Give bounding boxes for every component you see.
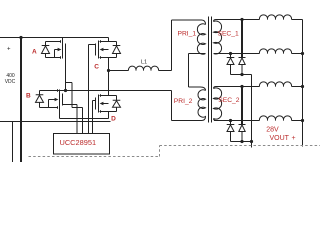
wire switch node A-B to PRI_2 bottom xyxy=(40,91,202,121)
svg-text:B: B xyxy=(26,93,31,100)
node C top line xyxy=(100,40,117,43)
wire dashed boundary xyxy=(29,146,320,157)
inductor LOUT1 xyxy=(259,15,302,20)
wire D gate lead to controller xyxy=(93,101,96,134)
node switch node C-D with L1 xyxy=(107,69,110,72)
node SEC_1 bottom junction xyxy=(229,52,232,55)
wire PRI_1 bottom to PRI_2 top xyxy=(189,54,206,91)
node SEC_2 bottom junction xyxy=(229,119,232,122)
node LOUT4 junction xyxy=(301,119,304,122)
mosfet A symbol xyxy=(46,50,61,59)
wire B-D common source line xyxy=(60,118,109,120)
wire A source / B drain trunk xyxy=(65,56,67,91)
transformer T1 primary winding PRI_2 xyxy=(198,90,206,121)
svg-text:PRI_1: PRI_1 xyxy=(178,30,197,37)
wire DR1-DR2 anode join xyxy=(231,74,243,76)
diode DC body diode xyxy=(113,42,121,58)
node anode junction SEC_2 xyxy=(240,140,243,143)
wire DR3-DR4 anode join to VOUT- xyxy=(231,142,252,148)
svg-text:L1: L1 xyxy=(141,60,147,66)
svg-text:UCC28951: UCC28951 xyxy=(60,138,97,147)
transistor Q C (upper-right) xyxy=(94,38,120,71)
svg-text:VOUT: VOUT xyxy=(270,135,290,142)
wire SEC_1 return to output ground xyxy=(242,75,252,142)
wire B gate lead to controller xyxy=(63,105,78,134)
svg-text:VDC: VDC xyxy=(5,79,16,85)
transformer T1 secondary winding SEC_2 xyxy=(214,87,217,89)
wire C gate lead to controller xyxy=(89,45,96,134)
diode DB body diode xyxy=(36,91,44,108)
wire A gate lead to controller xyxy=(66,83,83,134)
wire SEC_2 bottom lead xyxy=(214,119,260,121)
svg-text:28V: 28V xyxy=(266,127,279,134)
wire bottom negative rail xyxy=(0,121,111,123)
inductor L1 xyxy=(109,70,129,72)
svg-text:+: + xyxy=(7,46,11,52)
mosfet B symbol xyxy=(40,89,58,109)
svg-text:A: A xyxy=(32,49,37,56)
wire A drain stub xyxy=(62,38,64,41)
mosfet D symbol xyxy=(96,95,117,113)
wire D source to rail xyxy=(108,112,110,119)
transistor Q D (lower-right) xyxy=(96,94,121,122)
transformer T1 secondary winding SEC_1 xyxy=(214,20,217,22)
diode DR4 rectifier xyxy=(239,87,246,142)
wire SEC_1 top lead xyxy=(216,19,260,21)
diode DR1 rectifier xyxy=(227,54,235,75)
node anode junction SEC_1 xyxy=(240,73,243,76)
transformer T1 primary winding PRI_1 xyxy=(197,24,205,54)
node SEC_2 top junction xyxy=(240,85,243,88)
svg-text:D: D xyxy=(111,115,116,122)
op-amp U1 controller UCC28951 box xyxy=(54,134,110,155)
inductor LOUT2 xyxy=(259,49,302,54)
node A-B junction xyxy=(64,89,67,92)
node A top line xyxy=(46,40,61,43)
node D top line xyxy=(100,94,117,97)
wire VOUT+ rail xyxy=(302,20,304,147)
svg-text:PRI_2: PRI_2 xyxy=(174,98,193,105)
node VOUT- junction xyxy=(250,140,253,143)
wire B source xyxy=(59,109,61,119)
node LOUT2 junction xyxy=(301,52,304,55)
node SEC_1 top junction xyxy=(240,18,243,21)
node LOUT3 junction xyxy=(301,85,304,88)
transistor Q B (lower-left) xyxy=(26,89,63,118)
diode DA body diode xyxy=(42,42,50,58)
wire C drain from rail xyxy=(108,38,110,42)
svg-text:SEC_1: SEC_1 xyxy=(218,31,239,38)
wire stub below negative rail xyxy=(12,122,14,163)
inductor LOUT4 xyxy=(259,116,302,121)
svg-text:C: C xyxy=(94,64,99,71)
transformer T1 core xyxy=(209,17,212,123)
wire SEC_2 top lead xyxy=(216,86,260,88)
diode DD body diode xyxy=(113,96,121,112)
svg-text:+: + xyxy=(292,135,296,142)
wire 400VDC positive bus vertical xyxy=(20,38,22,163)
diode DR3 rectifier xyxy=(227,121,235,142)
transistor Q A (upper-left) xyxy=(32,38,66,59)
wire C source / D drain trunk xyxy=(108,58,110,96)
svg-text:SEC_2: SEC_2 xyxy=(218,97,239,104)
wire SEC_1 bottom lead xyxy=(214,53,260,55)
inductor LOUT3 xyxy=(259,82,302,87)
wire top positive rail xyxy=(0,37,109,39)
mosfet C symbol xyxy=(96,41,117,59)
diode DR2 rectifier xyxy=(239,20,246,75)
node bus junction xyxy=(19,36,22,39)
